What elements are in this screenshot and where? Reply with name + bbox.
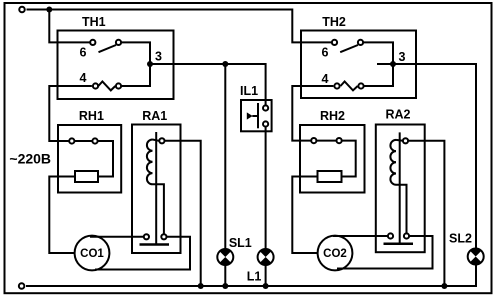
wire TH1 c4 to RH1 <box>49 86 92 141</box>
RA1 contact right circle <box>161 234 166 239</box>
wire RA2 right contact to CO2 bottom <box>337 236 433 269</box>
wire TH2 c4 to node3 <box>364 64 393 86</box>
wire RH2 heater to CO2 <box>292 177 317 254</box>
wire bottom bus <box>26 264 476 287</box>
svg-text:TH1: TH1 <box>82 15 106 29</box>
wire RH1 contact to heater <box>98 141 113 177</box>
node junction top <box>46 7 52 13</box>
RH1 heater resistor <box>75 171 98 182</box>
TH1 thermal zigzag <box>98 82 115 91</box>
RH1 box <box>58 125 121 193</box>
lamp SL2 <box>468 248 484 264</box>
RH2 contact left circle <box>311 138 316 143</box>
TH1 contact 6 right circle <box>116 40 121 45</box>
svg-text:RH1: RH1 <box>79 109 104 123</box>
TH2 box <box>301 31 416 99</box>
RA2 box <box>376 125 425 253</box>
wire RH1 contacts bridge <box>74 140 92 142</box>
RA1 coil link <box>153 140 159 141</box>
wire RA1 right contact to CO1 bottom <box>95 237 190 270</box>
TH2 contact 4 right circle <box>358 83 363 88</box>
svg-text:CO2: CO2 <box>323 248 347 260</box>
lamp SL1 <box>217 249 233 265</box>
CO1 motor <box>75 236 110 271</box>
svg-text:3: 3 <box>155 50 162 64</box>
TH2 contact 4 left circle <box>334 83 339 88</box>
TH2 thermal zigzag <box>341 82 358 91</box>
svg-text:RA2: RA2 <box>385 108 410 122</box>
RA2 contact left circle <box>388 233 393 238</box>
RA1 armature bar <box>140 243 170 246</box>
node RA2 bus <box>441 283 447 289</box>
IL1 top circle <box>263 105 268 110</box>
node 3 TH2 <box>390 61 396 67</box>
RA2 armature bar <box>384 242 414 245</box>
wire TH1 c4 to node3 <box>121 64 150 86</box>
svg-text:L1: L1 <box>247 270 262 284</box>
TH1 contact 6 left circle <box>90 40 95 45</box>
RA2 contact right circle <box>404 233 409 238</box>
wire TH2 out to SL2 <box>393 64 476 249</box>
svg-text:SL1: SL1 <box>229 236 252 250</box>
wire TH1 contact6 feed <box>49 10 90 43</box>
RA1 coil terminal circle <box>159 138 164 143</box>
RH1 contact left circle <box>69 138 74 143</box>
wire TH2 c6 to node3 <box>363 42 393 64</box>
TH1 contact 4 left circle <box>93 83 98 88</box>
TH2 contact 6 left circle <box>332 40 337 45</box>
RH1 contact right circle <box>92 138 97 143</box>
TH2 node3 stub <box>377 63 393 65</box>
wire RH2 contact to heater <box>342 141 356 177</box>
wire TH1 out to IL1 <box>150 64 266 105</box>
svg-text:TH2: TH2 <box>322 15 346 29</box>
wire RA2 coil terminal down to bus <box>408 141 444 286</box>
RA1 contact left circle <box>144 234 149 239</box>
wire top bus <box>27 10 332 43</box>
IL1 bottom circle <box>263 121 268 126</box>
svg-text:3: 3 <box>399 50 406 64</box>
IL1 button link <box>252 115 258 117</box>
node L1 bottom <box>263 283 269 289</box>
wire L1 to bus <box>265 265 267 286</box>
wire CO1 top to RA1 left contact <box>90 236 143 238</box>
svg-text:CO1: CO1 <box>80 248 104 260</box>
IL1 actuator bar <box>257 103 259 128</box>
RH2 box <box>300 125 365 193</box>
wire RA1 coil to contact <box>153 184 164 234</box>
wire RA2 coil to contact <box>396 185 407 233</box>
CO2 motor <box>318 236 353 271</box>
wire RH1 heater to CO1 <box>49 177 75 254</box>
RA1 box <box>132 125 181 254</box>
RA2 armature stem <box>399 132 401 242</box>
wire RH2 contacts bridge <box>316 140 336 142</box>
svg-text:RA1: RA1 <box>142 109 167 123</box>
terminal bottom-left <box>19 283 25 289</box>
svg-text:IL1: IL1 <box>240 84 258 98</box>
svg-text:4: 4 <box>322 72 329 86</box>
wire SL1 drop <box>224 64 226 249</box>
wire TH2 c4 to RH2 <box>292 86 333 141</box>
wire SL1 to bus <box>224 265 226 286</box>
wire CO2 top to RA2 left contact <box>333 235 388 237</box>
RA2 coil <box>390 140 396 185</box>
node 3 TH1 <box>147 61 153 67</box>
RA2 coil terminal circle <box>403 138 408 143</box>
svg-text:4: 4 <box>80 71 87 85</box>
svg-text:~220B: ~220B <box>9 150 51 166</box>
TH2 contact 6 right circle <box>358 40 363 45</box>
IL1 button head <box>247 112 253 119</box>
node junction SL1 drop <box>222 61 228 67</box>
node RA1 bus <box>198 283 204 289</box>
RA1 armature stem <box>155 132 157 244</box>
svg-text:6: 6 <box>80 46 87 60</box>
TH1 contact 4 right circle <box>116 83 121 88</box>
terminal top-left <box>19 7 25 13</box>
wire TH1 c6 to node3 <box>121 42 150 64</box>
RH2 contact right circle <box>337 138 342 143</box>
IL1 box <box>241 100 272 131</box>
TH1 switch lever <box>99 45 117 52</box>
TH2 switch lever <box>340 45 358 52</box>
lamp L1 <box>258 249 274 265</box>
svg-text:RH2: RH2 <box>320 109 345 123</box>
svg-text:SL2: SL2 <box>449 232 472 246</box>
TH1 box <box>58 31 174 100</box>
node SL1 bottom <box>222 283 228 289</box>
svg-text:6: 6 <box>322 46 329 60</box>
RA2 coil link <box>396 139 403 142</box>
wire IL1 to L1 <box>265 127 267 249</box>
wire RA1 coil terminal down to bus <box>165 141 201 286</box>
RH2 heater resistor <box>318 171 342 182</box>
RA1 coil <box>147 140 153 185</box>
